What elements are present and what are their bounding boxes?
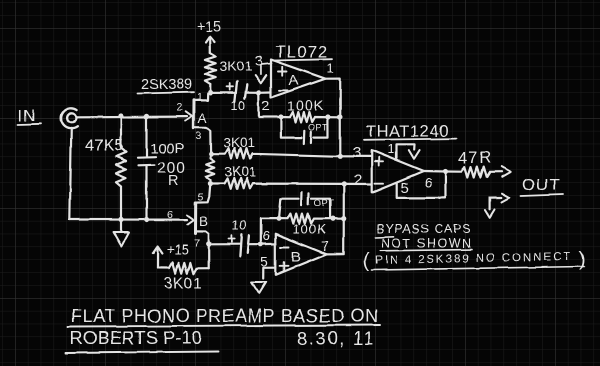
- label A U1A: [289, 72, 300, 89]
- node U2 output: [443, 169, 448, 174]
- svg-text:7: 7: [195, 238, 201, 250]
- part label TL072: [273, 43, 332, 62]
- pin 2 label Q1A: [177, 102, 183, 114]
- svg-text:1: 1: [388, 142, 396, 157]
- power +15 arrow (bottom): [153, 247, 163, 269]
- resistor R3 200R source coupling: [206, 154, 215, 184]
- title line 2: [66, 328, 218, 353]
- pin 1 label U1A: [327, 61, 335, 76]
- capacitor C3 OPT label (A): [308, 123, 329, 134]
- capacitor C1 100P value label: [150, 141, 185, 158]
- capacitor C2 plates: [235, 82, 247, 102]
- transistor Q1A 2SK389-A gate arrow: [185, 112, 191, 121]
- node Q1A drain / C2: [208, 90, 213, 95]
- label B Q1B: [199, 214, 209, 229]
- svg-text:47R: 47R: [458, 149, 493, 167]
- svg-text:5: 5: [401, 180, 410, 197]
- svg-text:8.30, 11: 8.30, 11: [297, 329, 375, 349]
- svg-text:OUT: OUT: [522, 175, 561, 194]
- svg-text:100P: 100P: [150, 141, 185, 158]
- resistor R1 47K5 value label: [85, 137, 124, 155]
- pin 5 label Q1B: [198, 192, 204, 204]
- node feedback B left: [276, 216, 281, 221]
- node Q1B drain / R5: [208, 181, 213, 186]
- svg-text:1: 1: [327, 61, 335, 76]
- wire to U2 pin3: [340, 155, 371, 157]
- pin 3 label U2: [353, 145, 362, 162]
- svg-text:6: 6: [425, 175, 433, 191]
- op-amp U2 minus sign: [375, 182, 384, 184]
- capacitor C2 10 value label (A): [231, 99, 246, 113]
- resistor R7 100K: [279, 214, 344, 224]
- pin 6 label U1B: [263, 228, 271, 243]
- op-amp U2 plus sign: [375, 158, 384, 166]
- op-amp U1B TL072 triangle: [275, 234, 327, 275]
- wire to U2 pin2: [344, 183, 372, 185]
- polarity + C4: [228, 236, 235, 243]
- label A Q1A: [198, 111, 208, 126]
- resistor R1 47K5: [116, 116, 126, 219]
- node U1B pin6: [258, 242, 263, 247]
- resistor R8 3K01 B source bias: [158, 263, 209, 274]
- label B U1B: [291, 249, 302, 266]
- note BYPASS CAPS: [375, 222, 471, 238]
- part label 2SK389: [137, 77, 194, 94]
- op-amp U1B minus sign: [281, 246, 290, 248]
- wire C4 to U1B inverting input: [248, 243, 260, 245]
- capacitor C5 optional (B): [279, 192, 330, 218]
- op-amp U1A plus sign: [279, 67, 288, 75]
- resistor R2 3K01 drain load: [205, 53, 216, 92]
- ground under input rail: [114, 220, 129, 246]
- capacitor C5 OPT label (B): [314, 198, 335, 209]
- svg-text:3: 3: [255, 53, 264, 70]
- node THAT input+ junction: [338, 154, 343, 159]
- transistor Q1B 2SK389-B gate arrow: [187, 215, 194, 224]
- wire input jack down to lower gate rail: [69, 128, 71, 220]
- ground arrow U1A non-inverting input: [255, 64, 271, 84]
- svg-text:THAT1240: THAT1240: [366, 123, 449, 141]
- wire U1A pin2 to feedback rail: [259, 92, 281, 117]
- svg-text:3: 3: [353, 145, 362, 162]
- power +15 label (bottom): [167, 242, 190, 257]
- note NOT SHOWN: [380, 237, 472, 251]
- capacitor C4 plates: [240, 234, 249, 256]
- capacitor C1 100P: [138, 116, 156, 219]
- op-amp U1B plus sign: [280, 262, 289, 270]
- pin 3 label Q1A: [196, 130, 202, 142]
- node 100P-ground rail: [144, 217, 149, 222]
- capacitor C4 10 value label (B): [232, 219, 247, 233]
- svg-text:A: A: [289, 72, 300, 89]
- svg-text:BYPASS CAPS: BYPASS CAPS: [376, 222, 471, 236]
- svg-text:47K5: 47K5: [85, 137, 124, 155]
- power +15 arrow (top): [206, 36, 215, 53]
- resistor R2 3K01 value label (drain): [219, 58, 252, 74]
- ground arrow U2 pin1: [409, 151, 420, 160]
- node input-47K5: [118, 113, 123, 118]
- resistor R8 3K01 value label (B source): [164, 276, 202, 293]
- wire U1B pin6 to feedback rail: [261, 219, 279, 245]
- wire U1B pin6 into triangle: [261, 243, 276, 245]
- transistor Q1B drain lead: [196, 185, 211, 203]
- svg-text:): ): [579, 249, 586, 271]
- svg-text:10: 10: [232, 219, 247, 233]
- pin 1 label U2: [388, 142, 396, 157]
- op-amp U2 THAT1240 triangle: [372, 150, 424, 192]
- node U1B feedback tap: [341, 216, 346, 221]
- svg-text:ROBERTS P-10: ROBERTS P-10: [70, 328, 202, 348]
- resistor R9 47R: [445, 167, 501, 177]
- ground under U1B non-inverting input: [252, 282, 266, 293]
- power +15 label (top): [197, 20, 222, 36]
- polarity + C2: [227, 83, 234, 90]
- net label OUT: [521, 175, 563, 196]
- net label IN: [18, 108, 41, 125]
- part label THAT1240: [364, 123, 456, 141]
- node U1A feedback tap: [337, 114, 342, 119]
- node 47K5-ground rail: [118, 217, 123, 222]
- svg-text:NOT SHOWN: NOT SHOWN: [381, 237, 472, 251]
- svg-text:A: A: [198, 111, 208, 126]
- wire U1A output: [325, 79, 340, 157]
- svg-text:7: 7: [322, 238, 330, 254]
- pin 7 label U1B: [322, 238, 330, 254]
- svg-text:6: 6: [263, 228, 271, 243]
- pin 1 label Q1A: [197, 91, 203, 103]
- transistor Q1B channel bar: [194, 203, 197, 234]
- resistor R5 3K01 value label (B to THAT -): [225, 165, 257, 180]
- svg-text:B: B: [199, 214, 209, 229]
- wire Q1A drain to C2: [210, 91, 234, 93]
- output return arrow down: [485, 198, 495, 218]
- svg-text:3K01: 3K01: [219, 58, 252, 74]
- svg-text:10: 10: [231, 99, 246, 113]
- resistor R5 3K01: [210, 178, 343, 188]
- node feedback A right: [326, 114, 331, 119]
- svg-text:6: 6: [167, 209, 173, 221]
- title line 1: [68, 306, 380, 327]
- pin 5 label U2: [401, 180, 410, 197]
- resistor R7 100K value label (U1B feedback): [293, 222, 327, 237]
- svg-text:FLAT PHONO PREAMP BASED ON: FLAT PHONO PREAMP BASED ON: [71, 306, 379, 326]
- node Q1A source / R4: [209, 151, 214, 156]
- node feedback A left: [278, 114, 283, 119]
- svg-text:2: 2: [354, 172, 363, 189]
- pin 2 label U2: [354, 172, 363, 189]
- svg-text:3K01: 3K01: [164, 276, 202, 293]
- output arrow main: [502, 167, 511, 177]
- op-amp U1A TL072 triangle: [271, 60, 325, 98]
- wire U2 output: [424, 170, 446, 173]
- wire U1B output: [327, 184, 344, 255]
- svg-text:R: R: [168, 173, 179, 189]
- svg-text:2: 2: [262, 98, 270, 114]
- wire U2 pin1 stub: [397, 144, 415, 158]
- resistor R3 200R value label: [157, 160, 186, 189]
- svg-text:B: B: [291, 249, 302, 266]
- svg-text:100K: 100K: [293, 222, 327, 237]
- svg-text:3K01: 3K01: [225, 165, 257, 180]
- output return arrow right: [490, 193, 509, 202]
- svg-text:2: 2: [177, 102, 183, 114]
- transistor Q1A source lead: [193, 128, 210, 152]
- svg-text:+15: +15: [167, 242, 190, 257]
- svg-text:+15: +15: [197, 20, 222, 36]
- wire U1A pin2 into triangle: [259, 91, 271, 94]
- transistor Q1A channel bar: [192, 100, 195, 128]
- resistor R9 47R value label: [458, 149, 493, 167]
- pin 6 label Q1B: [167, 209, 173, 221]
- wire Q1B source to C4: [209, 243, 240, 245]
- op-amp U1A minus sign: [279, 89, 288, 91]
- transistor Q1B source lead: [196, 231, 209, 268]
- pin 5 label U1B: [261, 254, 269, 270]
- pin 7 label Q1B: [195, 238, 201, 250]
- node U1A pin2: [256, 90, 261, 95]
- pin 2 label U1A: [262, 98, 270, 114]
- node feedback B right: [330, 216, 335, 221]
- resistor R4 3K01: [211, 149, 340, 159]
- capacitor C3 optional (A): [281, 117, 329, 144]
- pin 3 label U1A: [255, 53, 264, 70]
- input jack connector J1: [61, 108, 77, 128]
- resistor R6 100K value label (U1A feedback): [287, 98, 325, 114]
- wire C2 to U1A inverting input: [246, 91, 259, 93]
- svg-text:5: 5: [198, 192, 204, 204]
- wire input jack to JFET A gate: [76, 115, 186, 118]
- resistor R4 3K01 value label (A to THAT +): [224, 136, 256, 151]
- transistor Q1A drain lead: [194, 94, 208, 101]
- svg-text:(: (: [363, 250, 370, 272]
- svg-text:2SK389: 2SK389: [141, 77, 193, 93]
- node input-100P: [144, 114, 149, 119]
- resistor R6 100K: [281, 112, 340, 122]
- wire U2 feedback loop pin5-6: [397, 172, 446, 198]
- svg-text:3: 3: [196, 130, 202, 142]
- wire lower rail to JFET B gate: [69, 218, 187, 220]
- date 8.30.11: [297, 329, 375, 349]
- note PIN 4 NO CONNECT: [363, 249, 586, 272]
- node Q1B source / C4: [206, 242, 211, 247]
- svg-text:IN: IN: [18, 108, 36, 125]
- pin 6 label U2: [425, 175, 433, 191]
- wire U1B non-inverting input: [263, 268, 275, 279]
- svg-text:1: 1: [197, 91, 203, 103]
- node THAT input- junction: [341, 181, 346, 186]
